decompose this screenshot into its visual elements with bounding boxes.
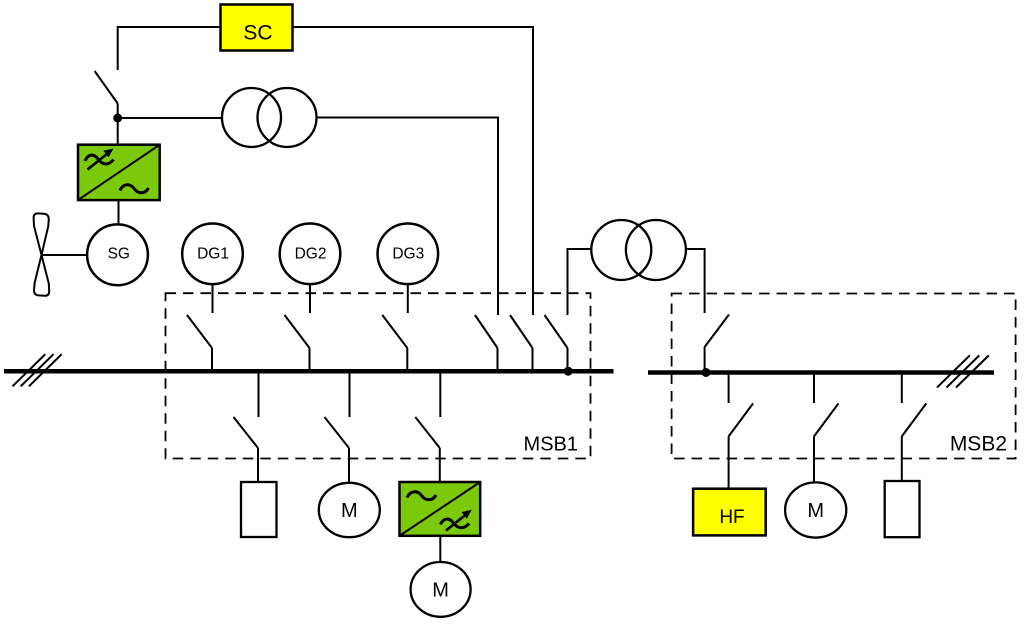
generator SG xyxy=(87,224,148,285)
svg-text:MSB1: MSB1 xyxy=(524,434,578,456)
switch S1 blade xyxy=(95,71,118,104)
svg-text:M: M xyxy=(432,580,449,602)
svg-text:MSB2: MSB2 xyxy=(950,433,1007,456)
node junction dot xyxy=(113,114,122,123)
transformer T1 xyxy=(222,88,317,147)
bus MSB2 xyxy=(648,370,994,375)
breaker B6 (tie from T2) xyxy=(545,315,568,371)
wire switch to converter xyxy=(117,104,119,147)
svg-text:DG3: DG3 xyxy=(392,246,424,263)
wire FC1 to SG xyxy=(118,200,120,225)
propeller xyxy=(34,213,50,295)
motor M3 xyxy=(785,482,846,537)
breaker DG3 xyxy=(382,284,408,371)
svg-text:SG: SG xyxy=(108,246,130,263)
breaker F6 (below bus2) xyxy=(902,375,927,481)
load box L2 xyxy=(885,481,920,537)
wire FC2 to M2 xyxy=(439,536,441,563)
generator DG3 xyxy=(378,224,439,285)
motor M2 xyxy=(411,562,471,617)
breaker F5 (below bus2) xyxy=(814,375,839,483)
svg-text:M: M xyxy=(807,500,824,522)
generator DG2 xyxy=(280,224,341,285)
svg-text:DG1: DG1 xyxy=(197,246,229,263)
wire T2 left lead xyxy=(568,249,592,315)
transformer T2 xyxy=(591,220,686,280)
switchboard MSB2 dashed box xyxy=(672,294,1016,459)
motor M1 xyxy=(319,483,380,537)
wire node to transformer T1 xyxy=(118,117,223,119)
generator DG1 xyxy=(182,224,243,285)
wire T2 right lead xyxy=(686,249,705,313)
wire SC right to breaker B5 xyxy=(293,27,534,315)
box SC xyxy=(221,5,293,51)
node bus2 dot xyxy=(702,368,711,377)
wire T1 right to breaker B4 xyxy=(317,118,499,316)
breaker F4 (below bus2) xyxy=(729,375,754,489)
svg-text:DG2: DG2 xyxy=(295,246,327,263)
load box L1 xyxy=(241,482,277,537)
svg-text:SC: SC xyxy=(243,22,272,45)
svg-text:HF: HF xyxy=(719,507,744,528)
breaker F2 (below bus1) xyxy=(325,373,350,483)
breaker F1 (below bus1) xyxy=(234,373,259,482)
box HF xyxy=(693,489,766,536)
node bus1 dot xyxy=(564,367,573,376)
breaker F3 (below bus1) xyxy=(415,373,440,482)
breaker B4 blade xyxy=(475,315,498,371)
converter FC1 xyxy=(78,145,160,200)
breaker B5 blade xyxy=(510,315,533,371)
breaker DG1 (wire, blade, wire) xyxy=(187,284,213,371)
bus MSB1 xyxy=(4,369,614,374)
svg-text:M: M xyxy=(341,500,358,522)
breaker B7 (MSB2 incoming) xyxy=(705,315,729,373)
wire SC left to switch xyxy=(118,27,221,70)
bus1 left slashes xyxy=(13,354,62,386)
switchboard MSB1 dashed box xyxy=(166,293,591,458)
wire propeller shaft xyxy=(42,254,88,256)
breaker DG2 xyxy=(285,284,311,371)
converter FC2 xyxy=(400,482,481,536)
bus2 right slashes xyxy=(937,355,989,387)
